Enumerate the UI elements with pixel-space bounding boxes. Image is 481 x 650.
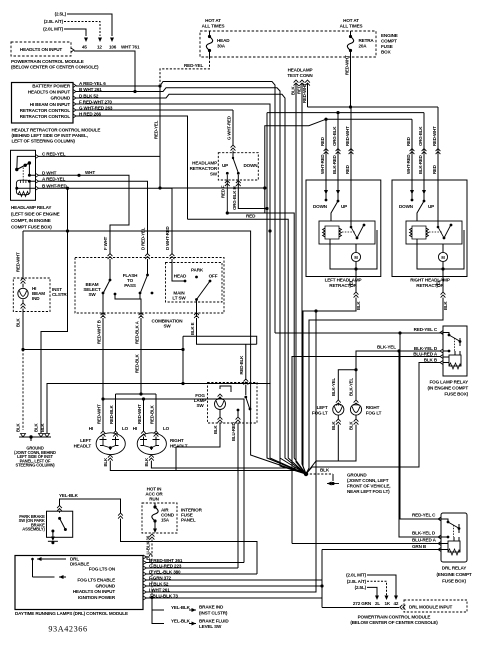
svg-text:YEL: YEL [349, 279, 354, 288]
wire row ORG-BLK to retractors [267, 112, 424, 114]
svg-text:GROUND: GROUND [347, 473, 367, 478]
svg-text:LEFT: LEFT [317, 405, 328, 410]
drl module input box (dashed) [400, 605, 406, 610]
svg-text:BLK B: BLK B [424, 357, 438, 362]
svg-text:UP: UP [428, 204, 434, 209]
wire J BLU-BLK 73 [147, 597, 323, 599]
svg-text:ALL TIMES: ALL TIMES [202, 23, 225, 28]
svg-text:RED-YEL: RED-YEL [184, 63, 203, 68]
svg-text:RIGHT: RIGHT [366, 405, 380, 410]
right retractor inner switch [443, 237, 446, 240]
svg-text:RED-WHT: RED-WHT [16, 252, 21, 272]
wire GRN riser [321, 550, 323, 608]
left retractor wire RED-WHT x351 [350, 107, 352, 180]
wire relay B WHT-RED [39, 188, 173, 254]
svg-text:HI BEAM ON INPUT: HI BEAM ON INPUT [30, 102, 71, 107]
right retractor wire RED x412 [411, 119, 413, 200]
svg-text:GROUND: GROUND [95, 583, 115, 588]
wire option brackets [67, 14, 112, 36]
svg-text:BLK: BLK [16, 317, 21, 327]
svg-text:BRAKE IND: BRAKE IND [199, 605, 224, 610]
svg-text:RED-BLK: RED-BLK [239, 355, 244, 375]
right retractor motor M [417, 230, 464, 269]
wire F GRN 372 [147, 579, 323, 581]
wire BLK from y233 junction [41, 231, 68, 433]
svg-text:TEST CONN: TEST CONN [287, 73, 313, 78]
svg-text:RETRACTOR CONTROL: RETRACTOR CONTROL [20, 114, 71, 119]
wire RED-YEL dashed from HEAD fuse [209, 51, 211, 58]
svg-text:OFF: OFF [209, 274, 218, 279]
svg-text:RED: RED [406, 137, 411, 146]
svg-text:(LEFT SIDE OF ENGINE: (LEFT SIDE OF ENGINE [11, 212, 60, 217]
svg-text:106: 106 [109, 45, 117, 50]
svg-text:(IN ENGINE COMPT: (IN ENGINE COMPT [428, 386, 469, 391]
left retractor coil [323, 226, 342, 239]
svg-text:RETRACTOR: RETRACTOR [190, 166, 218, 171]
svg-text:PANEL: PANEL [181, 518, 196, 523]
wire WHT-RED branch down [67, 188, 69, 231]
relay pins [36, 154, 39, 158]
wire RED-WHT to hi beam ind [23, 231, 306, 474]
svg-text:BLK: BLK [356, 300, 361, 310]
svg-text:RED: RED [432, 165, 437, 174]
svg-text:HEADLTS ON INPUT: HEADLTS ON INPUT [28, 89, 71, 94]
svg-text:LEFT OF STEERING COLUMN): LEFT OF STEERING COLUMN) [12, 139, 76, 144]
wire D BLK ground drop [280, 98, 306, 474]
svg-text:RED-YEL: RED-YEL [154, 120, 159, 139]
svg-text:RED-WHT: RED-WHT [345, 126, 350, 146]
wire BLU-RED row [292, 357, 440, 544]
svg-text:DRL RELAY: DRL RELAY [442, 566, 467, 571]
wire 272 GRN row [322, 607, 399, 609]
svg-text:BLK-YEL: BLK-YEL [377, 345, 396, 350]
svg-text:HEADLTS ON INPUT: HEADLTS ON INPUT [20, 47, 63, 52]
svg-text:RED: RED [246, 214, 256, 219]
svg-text:RED-BLK: RED-BLK [109, 404, 114, 424]
left headlt L2 [101, 431, 106, 437]
fuse AIR COND 15A [154, 503, 156, 506]
wire BLK dashed to ground [21, 348, 24, 351]
svg-text:LO: LO [163, 426, 170, 431]
svg-text:LEVEL SW: LEVEL SW [199, 624, 222, 629]
right retractor wire ORG-BLK x424 [423, 113, 425, 201]
wire YEL-BLK brake fluid [152, 610, 164, 624]
fog lamp sw S2 (dashed) [208, 383, 258, 424]
svg-text:STEERING COLUMN): STEERING COLUMN) [16, 463, 56, 468]
svg-text:(2.0L A/T): (2.0L A/T) [347, 579, 367, 584]
engine compt fuse box (dashed) [200, 31, 376, 57]
drl relay K3 [441, 513, 467, 562]
powertrain control module (top, dashed box) [11, 42, 71, 56]
svg-text:BLK-YEL D: BLK-YEL D [412, 531, 436, 536]
svg-text:RED-WHT: RED-WHT [345, 55, 350, 75]
wire GRN to DRL relay [322, 549, 441, 551]
svg-text:DOWN: DOWN [313, 204, 328, 209]
svg-text:BLK: BLK [320, 468, 330, 473]
svg-text:COMPT, IN ENGINE: COMPT, IN ENGINE [11, 218, 51, 223]
wire RED-YEL to fog lamp relay [275, 332, 443, 334]
wire WHT 761 to right [74, 51, 135, 92]
svg-text:LEFT: LEFT [80, 438, 91, 443]
svg-text:UP: UP [222, 163, 228, 168]
comb sw pin F WHT [108, 254, 113, 260]
wire I WHT 261 [147, 311, 317, 592]
fuse HEAD 30A [208, 35, 211, 38]
svg-text:(BEHIND LEFT SIDE OF INST PANE: (BEHIND LEFT SIDE OF INST PANEL, [12, 133, 88, 138]
svg-text:BLK: BLK [103, 457, 108, 467]
svg-text:BLK-YEL: BLK-YEL [348, 378, 353, 396]
left retractor wire ORG-BLK x338 [337, 113, 339, 201]
svg-text:BLU-RED A: BLU-RED A [412, 538, 437, 543]
svg-text:(BELOW CENTER OF CENTER CONSOL: (BELOW CENTER OF CENTER CONSOLE) [350, 620, 438, 625]
svg-text:RETRACTOR CONTROL: RETRACTOR CONTROL [20, 108, 71, 113]
svg-text:D WHT: D WHT [42, 170, 57, 175]
svg-text:BLK: BLK [34, 422, 39, 432]
wire BLK hi-beam row [23, 350, 183, 384]
svg-text:A RED-YEL: A RED-YEL [42, 176, 66, 181]
svg-text:(2.5L): (2.5L) [355, 585, 367, 590]
svg-text:ORG-BLK H: ORG-BLK H [232, 186, 237, 210]
svg-text:C RED-YEL: C RED-YEL [42, 151, 66, 156]
wire B WHT row [76, 88, 306, 474]
svg-text:BATTERY POWER: BATTERY POWER [32, 83, 71, 88]
svg-text:BLK-YEL: BLK-YEL [331, 378, 336, 396]
svg-text:HEAD: HEAD [174, 274, 187, 279]
svg-text:93A42366: 93A42366 [48, 625, 87, 634]
wire C BLU-RED 223 [147, 567, 239, 569]
svg-text:FUSE BOX): FUSE BOX) [442, 579, 466, 584]
svg-text:RED-YEL C: RED-YEL C [412, 513, 436, 518]
wire D YEL-BLK 380 [147, 573, 258, 575]
wire BLU-BLK 36 (dashed) [150, 534, 155, 540]
svg-text:HEADLT: HEADLT [74, 444, 92, 449]
svg-text:RIGHT: RIGHT [170, 438, 184, 443]
svg-text:RED: RED [320, 137, 325, 146]
right headlt L3 [141, 431, 146, 437]
left headlamp retractor M1 [306, 180, 381, 277]
comb sw pin D WHT-RED [170, 254, 175, 260]
svg-text:SW: SW [88, 292, 96, 297]
drl module pins [143, 555, 147, 559]
wire BLK row [306, 363, 440, 475]
svg-text:YEL-BLK: YEL-BLK [59, 493, 79, 498]
wire RED-YEL row 188 [160, 187, 265, 189]
svg-text:DAYTIME RUNNING LAMPS (DRL) CO: DAYTIME RUNNING LAMPS (DRL) CONTROL MODU… [15, 611, 128, 616]
svg-text:30A: 30A [217, 44, 226, 49]
comb sw pin D RED-YEL [145, 254, 150, 260]
svg-text:RED-WHT: RED-WHT [432, 126, 437, 146]
wire fog sw BLK [176, 423, 220, 471]
right retractor coil [410, 226, 429, 239]
wire G WHT-RED down to retractor sw [232, 110, 234, 145]
svg-text:HEADLAMP RELAY: HEADLAMP RELAY [11, 205, 51, 210]
svg-text:LO: LO [122, 426, 129, 431]
svg-text:POWERTRAIN CONTROL MODULE: POWERTRAIN CONTROL MODULE [358, 615, 431, 620]
svg-text:F WHT: F WHT [103, 236, 108, 250]
svg-text:SW: SW [163, 324, 171, 329]
svg-text:DISABLE: DISABLE [70, 562, 89, 567]
svg-text:HI: HI [133, 426, 137, 431]
svg-text:YEL-BLK: YEL-BLK [171, 618, 191, 623]
svg-text:HOT AT: HOT AT [205, 18, 221, 23]
wire G WHT-RED row [76, 109, 233, 111]
park brake sw S3 [47, 511, 73, 537]
svg-text:(BELOW CENTER OF CENTER CONSOL: (BELOW CENTER OF CENTER CONSOLE) [11, 65, 99, 70]
retractor sw contacts [226, 172, 229, 175]
svg-text:FUSE: FUSE [381, 44, 393, 49]
wire relay A RED-YEL [39, 181, 148, 254]
svg-text:SW: SW [210, 172, 218, 177]
svg-text:DRL MODULE INPUT: DRL MODULE INPUT [409, 604, 453, 609]
svg-text:GROUND: GROUND [50, 96, 70, 101]
wire relay C RED-YEL [39, 155, 161, 157]
wire BLU-RED to DRL relay [292, 543, 441, 545]
wire fog sw feed [243, 379, 248, 385]
svg-text:1K: 1K [385, 601, 391, 606]
svg-text:G WHT-RED: G WHT-RED [227, 116, 232, 140]
svg-text:HEADLAMP: HEADLAMP [288, 68, 313, 73]
drl relay coil [448, 541, 460, 552]
ground joint conn (left) [19, 436, 51, 438]
svg-text:BLK: BLK [213, 424, 218, 434]
svg-text:RED F: RED F [221, 185, 226, 198]
svg-text:(2.0L M/T): (2.0L M/T) [43, 27, 63, 32]
beam/flash output wires [102, 293, 104, 317]
svg-text:FOG LT: FOG LT [312, 411, 328, 416]
svg-text:(2.5L): (2.5L) [55, 12, 67, 17]
left retractor inner switch [356, 237, 359, 240]
svg-text:B WHT-RED: B WHT-RED [42, 183, 68, 188]
svg-text:COMPT: COMPT [381, 39, 397, 44]
svg-text:RED: RED [297, 85, 302, 94]
headlamp relay K1 [11, 150, 36, 200]
right headlamp retractor M2 [392, 180, 467, 277]
ground joint conn junction [304, 472, 308, 476]
svg-text:2L: 2L [375, 601, 380, 606]
test conn wires BLK RED RED-WHT [296, 83, 306, 474]
svg-text:ASSEMBLY): ASSEMBLY) [22, 527, 45, 532]
svg-text:FOG LTS ENABLE: FOG LTS ENABLE [77, 577, 115, 582]
svg-text:BLK-YEL D: BLK-YEL D [414, 346, 438, 351]
daytime running lamps (drl) control module U2 [15, 556, 143, 610]
inst clstr box (dashed) [13, 278, 50, 312]
wire right retractor YEL/BLK [306, 269, 443, 474]
svg-text:RED-BLK A: RED-BLK A [135, 320, 140, 344]
wire BLK-YEL row [356, 351, 440, 370]
svg-text:FRONT OF VEHICLE,: FRONT OF VEHICLE, [347, 484, 390, 489]
left retractor inner box [319, 221, 375, 244]
main lt sw (dashed) [166, 263, 223, 303]
svg-text:BLK E: BLK E [190, 322, 195, 335]
svg-text:HEADLT: HEADLT [170, 444, 188, 449]
svg-text:(2.0L A/T): (2.0L A/T) [44, 19, 64, 24]
svg-text:HEADLTS ON INPUT: HEADLTS ON INPUT [73, 589, 116, 594]
svg-text:RED-YEL C: RED-YEL C [414, 327, 438, 332]
wire H RED row [76, 116, 188, 219]
svg-text:COMPT FUSE BOX): COMPT FUSE BOX) [11, 225, 52, 230]
svg-text:ORG-BLK: ORG-BLK [418, 126, 423, 146]
svg-text:RED-WHT B: RED-WHT B [97, 320, 102, 344]
wire RED row to retractors [227, 213, 306, 474]
wire left retractor YEL/BLK [303, 269, 356, 474]
svg-text:PASS: PASS [124, 283, 136, 288]
svg-text:RED-WHT: RED-WHT [302, 83, 307, 103]
svg-text:BLK-RED: BLK-RED [332, 155, 337, 174]
svg-text:BLK: BLK [443, 300, 448, 310]
fuse RETRA 20A [349, 35, 352, 38]
svg-text:YEL: YEL [436, 279, 441, 288]
svg-text:ORG-BLK: ORG-BLK [332, 126, 337, 146]
svg-text:NEAR LEFT FOG LT): NEAR LEFT FOG LT) [347, 489, 390, 494]
svg-text:(ENGINE COMPT: (ENGINE COMPT [436, 572, 471, 577]
retractor sw pin H [238, 113, 267, 209]
svg-text:(INST CLSTR): (INST CLSTR) [199, 611, 228, 616]
svg-text:BLK: BLK [348, 420, 353, 430]
svg-text:BLK: BLK [331, 420, 336, 430]
svg-text:SW: SW [196, 403, 204, 408]
svg-text:BLK-RED: BLK-RED [418, 155, 423, 174]
svg-text:A RED-YEL 6: A RED-YEL 6 [79, 81, 106, 86]
fog sw contacts [244, 396, 247, 399]
comb sw bottom pins [101, 313, 106, 319]
wire row 219 to fan [188, 219, 307, 474]
svg-text:20A: 20A [359, 44, 368, 49]
svg-text:WHT: WHT [85, 170, 95, 175]
svg-text:BLU-RED: BLU-RED [231, 422, 236, 441]
svg-text:FOG LAMP RELAY: FOG LAMP RELAY [430, 380, 469, 385]
svg-text:IND: IND [32, 296, 40, 301]
svg-text:WHT-RED: WHT-RED [320, 155, 325, 174]
svg-text:IGNITION POWER: IGNITION POWER [78, 595, 116, 600]
svg-text:FOG LT: FOG LT [366, 411, 382, 416]
svg-text:BOX: BOX [381, 50, 392, 55]
svg-text:DOWN: DOWN [399, 204, 414, 209]
wire RED-YEL riser [159, 86, 161, 188]
wire RED-YEL riser to drl relay [400, 333, 441, 519]
relay coil [16, 180, 30, 195]
svg-text:POWERTRAIN CONTROL MODULE: POWERTRAIN CONTROL MODULE [11, 59, 84, 64]
svg-text:ALL TIMES: ALL TIMES [340, 23, 363, 28]
svg-text:HOT AT: HOT AT [343, 18, 359, 23]
hi beam ind L1 [22, 284, 24, 288]
right retractor wire RED-WHT x438 [437, 107, 439, 180]
svg-text:HI: HI [89, 426, 93, 431]
svg-text:UP: UP [341, 204, 347, 209]
right fog lt L5 [355, 370, 357, 400]
svg-text:RED: RED [345, 165, 350, 174]
svg-text:WHT-RED: WHT-RED [406, 155, 411, 174]
wire BLK-YEL drop to DRL relay [399, 351, 441, 537]
svg-text:15A: 15A [161, 518, 170, 523]
wire left fog branch [338, 370, 356, 400]
wire F RED-WHT row [76, 104, 306, 474]
headlt retractor control module U1 [12, 83, 74, 124]
wire H BLK 52 [147, 585, 323, 587]
svg-text:RED-WHT: RED-WHT [97, 404, 102, 424]
wire fog sw BLU-RED [237, 423, 239, 568]
fog relay pins [440, 331, 443, 335]
svg-text:RUN: RUN [149, 497, 159, 502]
relay contacts [15, 168, 18, 171]
svg-text:(JOINT CONN, LEFT: (JOINT CONN, LEFT [347, 478, 389, 483]
svg-text:(2.0L M/T): (2.0L M/T) [346, 573, 366, 578]
fog relay coil [449, 355, 461, 366]
svg-text:RED-BLK: RED-BLK [150, 404, 155, 424]
wire relay D WHT [39, 175, 130, 254]
wire D BLK row [76, 94, 306, 474]
fog sw lamp [215, 399, 226, 410]
combination sw box (dashed) [75, 258, 224, 314]
svg-text:HEADLT RETRACTOR CONTROL MODUL: HEADLT RETRACTOR CONTROL MODULE [12, 128, 101, 133]
svg-text:272 GRN: 272 GRN [353, 601, 372, 606]
svg-text:YEL-BLK: YEL-BLK [171, 605, 191, 610]
svg-text:FUSE BOX): FUSE BOX) [444, 392, 468, 397]
svg-text:HEADLAMP: HEADLAMP [192, 161, 217, 166]
svg-text:RED-BLK: RED-BLK [135, 353, 140, 373]
svg-text:BLK: BLK [291, 85, 296, 95]
svg-text:RIGHT HEADLAMP: RIGHT HEADLAMP [410, 278, 450, 283]
svg-text:FOG LTS ON: FOG LTS ON [89, 566, 116, 571]
wire RED-WHT B to headlights [102, 318, 104, 431]
svg-text:BRAKE FLUID: BRAKE FLUID [199, 619, 229, 624]
wire row 336 [182, 336, 184, 349]
fog lamp relay K2 [443, 326, 467, 376]
svg-text:BLK: BLK [16, 422, 21, 432]
svg-text:RED-WHT: RED-WHT [137, 404, 142, 424]
svg-text:BLK: BLK [40, 422, 45, 432]
wire RED-BLK A to headlights [140, 318, 142, 394]
svg-text:DOWN: DOWN [244, 163, 259, 168]
wire YEL-BLK brake ind [152, 598, 164, 611]
svg-text:BLU-RED A: BLU-RED A [413, 351, 438, 356]
svg-text:RETRA: RETRA [359, 38, 375, 43]
wire RED-WHT from RETRA fuse [350, 51, 352, 108]
svg-text:ENGINE: ENGINE [381, 33, 398, 38]
svg-text:BLK: BLK [144, 457, 149, 467]
svg-text:45: 45 [82, 45, 87, 50]
headlamp retractor sw S1 (dashed) [218, 153, 258, 180]
svg-text:WHT 761: WHT 761 [121, 45, 140, 50]
left retractor motor M [330, 230, 377, 269]
wire B RED-WHT 361 [147, 562, 245, 564]
svg-text:PARK: PARK [191, 268, 204, 273]
svg-text:HEAD: HEAD [217, 38, 230, 43]
svg-text:GRN B: GRN B [412, 544, 427, 549]
svg-text:LT SW: LT SW [172, 296, 186, 301]
svg-text:D WHT-RED: D WHT-RED [165, 226, 170, 250]
wire A RED-YEL row [76, 82, 275, 334]
wire row RED-WHT y107 [308, 106, 439, 108]
retractor sw pin F [226, 175, 228, 213]
svg-text:CLSTR: CLSTR [52, 292, 67, 297]
park brake ground [51, 537, 55, 542]
wire BLK comb sw E to fog sw [197, 318, 257, 379]
left retractor wire RED x326 [325, 119, 327, 200]
svg-text:42: 42 [394, 601, 399, 606]
fog relay contacts [448, 334, 451, 337]
svg-text:12: 12 [97, 45, 102, 50]
right retractor inner box [406, 221, 462, 244]
